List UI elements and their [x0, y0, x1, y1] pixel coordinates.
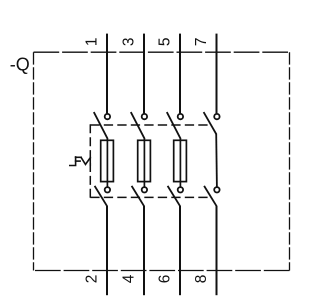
contact circle top [105, 114, 110, 119]
fuse F1 body [101, 140, 114, 181]
linkage edge dash at trip link [89, 157, 91, 166]
linkage top dashed line [90, 124, 209, 126]
pole 4 (terminals 7-8, switch only) [193, 34, 220, 296]
svg-text:4: 4 [121, 274, 138, 283]
svg-text:3: 3 [121, 37, 138, 46]
pole 3 (terminals 5-6, fused) [157, 34, 187, 296]
svg-text:5: 5 [157, 37, 174, 46]
svg-text:-Q: -Q [10, 55, 30, 75]
switch blade top [94, 112, 108, 139]
contact circle top [178, 114, 183, 119]
svg-text:1: 1 [84, 37, 101, 46]
switch blade top [204, 112, 217, 134]
contact circle top [142, 114, 147, 119]
trip release symbol [70, 157, 90, 166]
through conductor [215, 134, 218, 187]
switch blade bottom [132, 186, 145, 206]
fuse link line [106, 139, 108, 187]
wire terminal 5 [179, 34, 181, 114]
contact circle bottom [214, 187, 219, 192]
wire terminal 6 [179, 206, 181, 295]
wire terminal 2 [106, 206, 108, 295]
contact circle bottom [178, 187, 183, 192]
fuse link line [143, 139, 145, 187]
wire terminal 3 [143, 34, 145, 114]
svg-text:8: 8 [193, 275, 210, 284]
contact circle bottom [105, 187, 110, 192]
wire terminal 1 [106, 34, 108, 114]
outer enclosure dashed boundary [34, 52, 290, 270]
switch blade bottom [204, 186, 217, 206]
wire terminal 7 [216, 34, 218, 114]
switch blade top [131, 112, 145, 139]
wire terminal 8 [216, 206, 218, 295]
mechanical linkage dashed box [90, 124, 209, 198]
contact circle bottom [142, 187, 147, 192]
svg-text:7: 7 [193, 37, 210, 46]
svg-text:2: 2 [84, 275, 101, 284]
pole 2 (terminals 3-4, fused) [121, 34, 151, 296]
linkage bottom dashed line [90, 196, 209, 198]
contact circle top [214, 114, 219, 119]
fuse link line [179, 139, 181, 187]
switch blade bottom [95, 186, 108, 206]
switch blade bottom [168, 186, 181, 206]
fuse F3 body [174, 140, 187, 181]
wire terminal 4 [143, 206, 145, 295]
linkage left dashed edge [89, 124, 91, 198]
switch blade top [167, 112, 181, 139]
pole 1 (terminals 1-2, fused) [84, 34, 114, 296]
svg-text:6: 6 [157, 275, 174, 284]
fuse F2 body [138, 140, 151, 181]
